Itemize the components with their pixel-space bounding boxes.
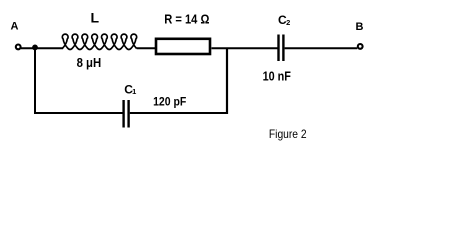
resistor R [156,39,210,54]
wire inductor to resistor [137,47,156,49]
svg-text:10 nF: 10 nF [263,70,292,84]
capacitor C2 [277,35,279,62]
svg-text:Figure 2: Figure 2 [269,127,307,141]
svg-text:L: L [91,10,100,26]
svg-text:R = 14 Ω: R = 14 Ω [164,13,209,27]
terminal B [358,44,363,49]
terminal A [16,45,21,50]
svg-text:120 pF: 120 pF [153,94,186,108]
wire left vertical branch [34,48,36,115]
node junction dot [32,45,38,51]
wire right vertical branch [226,48,228,114]
svg-text:A: A [11,21,19,33]
wire A to inductor [21,47,63,49]
svg-text:B: B [356,21,364,33]
wire C1 to right vertical [130,112,228,114]
capacitor C1 [122,100,124,128]
inductor L [62,34,136,49]
wire resistor to C2 [212,47,278,49]
wire bottom left to C1 [34,112,123,114]
svg-text:8 μH: 8 μH [77,56,102,70]
wire C2 to B [285,47,358,49]
